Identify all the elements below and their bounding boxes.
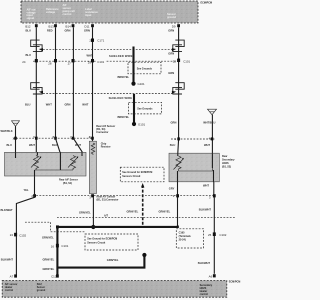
svg-text:BLK/WHT: BLK/WHT <box>199 208 212 212</box>
svg-text:WHT: WHT <box>75 143 81 147</box>
ECM/PCM header block <box>21 1 198 23</box>
svg-text:27: 27 <box>68 61 72 65</box>
heater wire colour labels <box>1 208 14 262</box>
pin C12 <box>51 274 59 278</box>
svg-text:C12: C12 <box>51 275 57 279</box>
see grounds note box lower <box>129 102 162 114</box>
pin D11 <box>84 24 93 28</box>
svg-text:B13: B13 <box>49 24 55 28</box>
svg-text:ground: ground <box>167 15 176 19</box>
sensor ground wire down to C12 <box>56 227 58 275</box>
svg-text:GRN: GRN <box>168 71 174 75</box>
svg-text:(B1, S1): (B1, S1) <box>63 182 72 185</box>
heater lead colour labels right <box>198 208 212 265</box>
pin B14 <box>66 24 75 28</box>
svg-text:GRY: GRY <box>169 186 175 190</box>
svg-text:GRN: GRN <box>168 52 174 56</box>
svg-text:ECM/PCM: ECM/PCM <box>229 280 241 283</box>
shield dashed link upper <box>43 49 172 51</box>
dashed ground drop from note box <box>141 183 144 227</box>
rear A/F sensor label <box>59 179 78 185</box>
pin B13 <box>49 24 57 28</box>
svg-text:BLK/WHT: BLK/WHT <box>1 258 14 262</box>
svg-text:C171: C171 <box>97 39 104 43</box>
ground G101 lower <box>132 122 146 127</box>
C101 connector dashed line <box>33 60 179 62</box>
shielded wire label lower <box>109 96 133 100</box>
svg-text:C101: C101 <box>97 60 104 64</box>
svg-text:BLU: BLU <box>7 143 13 147</box>
svg-text:D9: D9 <box>172 25 176 29</box>
pin A6 <box>209 274 216 278</box>
shield lead colour label <box>1 129 13 133</box>
svg-text:SHIELDED WIRE: SHIELDED WIRE <box>109 54 133 58</box>
svg-text:See Ground for ECM/PCM: See Ground for ECM/PCM <box>87 237 117 240</box>
svg-text:C102: C102 <box>219 233 226 237</box>
branch colour label <box>107 258 119 262</box>
svg-text:GRN: GRN <box>65 28 71 32</box>
shield clamp on W1 upper <box>31 40 43 51</box>
svg-text:See Ground for ECM/PCM: See Ground for ECM/PCM <box>122 171 152 174</box>
connector C101 pin 27 on W3 <box>68 59 75 65</box>
wire W3 GRN from B14 <box>73 27 82 152</box>
HO2S shield lead <box>211 115 213 154</box>
svg-text:D11: D11 <box>84 24 89 28</box>
svg-text:WHT: WHT <box>204 143 210 147</box>
svg-text:BRN/YEL: BRN/YEL <box>118 115 130 119</box>
see ground note box middle <box>85 234 138 250</box>
svg-text:signal: signal <box>27 16 35 20</box>
shield drain wire to G101 lower <box>133 94 135 124</box>
svg-text:BLK/WHT: BLK/WHT <box>198 261 211 265</box>
wire W5 GRN sensor ground <box>177 27 180 153</box>
ground wire colour labels <box>42 236 55 272</box>
HO2S pin 2 lower <box>173 194 179 198</box>
svg-text:control: control <box>5 289 14 292</box>
shield clamp on W5 upper <box>172 40 184 51</box>
HO2S below-box colour labels <box>169 183 210 190</box>
svg-text:16: 16 <box>51 244 55 248</box>
svg-text:WHT: WHT <box>29 143 35 147</box>
svg-text:BRN/YEL: BRN/YEL <box>118 75 130 79</box>
chip resistor pin 3 <box>89 194 94 199</box>
ground G101 upper <box>131 82 145 87</box>
connector C102 pin 24 <box>10 233 27 238</box>
svg-text:A7: A7 <box>10 275 14 279</box>
shield drain lead left <box>15 126 17 152</box>
YEL heater lead label <box>24 188 30 192</box>
svg-text:24: 24 <box>22 60 26 64</box>
svg-text:B12: B12 <box>25 24 31 28</box>
HO2S pigtail colour labels <box>170 143 211 147</box>
connector C101 pin 24 on W1 <box>22 59 38 64</box>
svg-text:See Grounds: See Grounds <box>137 108 153 111</box>
svg-text:Sensors Circuit: Sensors Circuit <box>87 241 105 244</box>
svg-text:GRN/YEL: GRN/YEL <box>43 258 55 262</box>
wire W1 colour labels <box>25 28 31 106</box>
svg-text:GRN: GRN <box>65 103 71 107</box>
A/T dashed branch left <box>25 222 85 232</box>
rear A/F sensor body <box>5 152 87 176</box>
svg-text:control: control <box>200 293 209 296</box>
pin A7 <box>10 274 17 278</box>
svg-text:YEL: YEL <box>24 188 30 192</box>
svg-text:(B1, S2): (B1, S2) <box>222 165 231 168</box>
svg-text:C101: C101 <box>61 244 68 248</box>
svg-text:GRN/YEL: GRN/YEL <box>127 210 139 214</box>
connector C101 pin 29 on W4 <box>88 59 106 65</box>
svg-text:input: input <box>85 13 91 17</box>
svg-text:ECM/PCM: ECM/PCM <box>201 2 213 5</box>
ground bus corner tick <box>56 225 59 228</box>
svg-text:BLK/WHT: BLK/WHT <box>1 208 14 212</box>
connector C102 pin 25 <box>208 232 227 237</box>
svg-text:(B1, S1) Connector: (B1, S1) Connector <box>97 199 119 202</box>
wire W1 BLU from B12 <box>35 27 37 152</box>
header pin function labels <box>27 3 177 20</box>
svg-text:WHT: WHT <box>82 103 88 107</box>
svg-text:BLU: BLU <box>170 143 176 147</box>
connector C101 pin 28 on W2 <box>48 59 57 66</box>
see ground note box right <box>120 167 164 182</box>
shield dashed link lower <box>43 93 172 95</box>
wire W4 colour labels <box>82 28 93 106</box>
svg-text:control: control <box>63 12 72 16</box>
svg-text:BLK: BLK <box>52 143 58 147</box>
connector C171 pin 2 on W4 <box>89 38 105 42</box>
svg-text:BLU: BLU <box>26 28 32 32</box>
HO2S lead colour label <box>203 121 215 125</box>
HO2S pin 1 <box>174 137 180 141</box>
drain colour label lower <box>118 115 130 119</box>
bottom block pin function labels <box>5 283 213 296</box>
svg-text:BLU: BLU <box>25 103 31 107</box>
svg-text:A6: A6 <box>209 275 213 279</box>
HO2S 4P connector dashed line <box>171 138 215 140</box>
svg-text:Sensors Circuit: Sensors Circuit <box>122 175 140 178</box>
connector C101 pin 22 on W5 <box>173 59 192 64</box>
svg-text:WHT: WHT <box>203 183 209 187</box>
shield drain wire to G101 upper <box>132 47 134 84</box>
svg-text:ground: ground <box>37 289 46 292</box>
svg-text:voltage: voltage <box>46 10 56 14</box>
HO2S pin 4 <box>209 137 214 141</box>
connector pin 6 <box>33 135 37 140</box>
HO2S lower leads <box>178 182 214 198</box>
chip resistor label <box>101 142 111 148</box>
ECM/PCM label top <box>201 2 213 5</box>
A/F sensor 8P connector dashed line <box>13 137 93 139</box>
svg-text:WHT: WHT <box>87 53 93 57</box>
see grounds note box upper <box>128 62 161 74</box>
svg-text:See Grounds: See Grounds <box>137 67 153 70</box>
svg-text:SHIELDED WIRE: SHIELDED WIRE <box>109 96 133 100</box>
HO2S pin 3 lower <box>209 194 216 200</box>
sensor connectors dashed line row <box>33 195 215 197</box>
ECM/PCM label bottom <box>229 280 241 283</box>
svg-text:GRN: GRN <box>84 28 90 32</box>
wire W5 colour labels <box>168 29 176 125</box>
svg-text:GRN/YEL: GRN/YEL <box>79 211 91 215</box>
C165 note box <box>176 229 203 248</box>
svg-text:GRN/YEL: GRN/YEL <box>43 267 55 271</box>
svg-text:C101: C101 <box>183 59 190 63</box>
svg-text:A/T: A/T <box>104 214 108 217</box>
svg-text:BLU: BLU <box>26 53 32 57</box>
connector pin 8 <box>52 135 56 140</box>
wire W3 colour labels <box>65 28 71 106</box>
A/F sensor ground lead from chip resistor <box>92 197 94 226</box>
shield clamp on W1 lower <box>31 83 43 94</box>
pin B12 <box>25 24 37 28</box>
svg-text:GRN/YEL: GRN/YEL <box>107 258 119 262</box>
chip resistor pin 4 <box>89 135 91 139</box>
svg-text:24: 24 <box>10 233 14 237</box>
rear secondary HO2S body <box>169 153 219 182</box>
svg-text:G101: G101 <box>138 123 145 127</box>
shielded wire label upper <box>109 54 133 58</box>
svg-text:GRN: GRN <box>171 121 177 125</box>
svg-text:22: 22 <box>173 60 177 64</box>
svg-text:WHT: WHT <box>46 103 52 107</box>
svg-text:RED: RED <box>47 28 53 32</box>
svg-text:GRN/YEL: GRN/YEL <box>159 210 171 214</box>
connector pin 7 <box>70 135 74 140</box>
svg-text:Resistor: Resistor <box>101 146 111 149</box>
wire W2 RED from B13 <box>56 27 61 152</box>
svg-text:29: 29 <box>88 61 92 65</box>
svg-text:25-24): 25-24) <box>179 239 186 242</box>
svg-text:B14: B14 <box>66 24 72 28</box>
rear A/F sensor connector label <box>96 125 115 134</box>
wire W4 GRN from D11 to chip resistor <box>92 27 94 141</box>
sensor pigtail colour labels <box>7 143 82 147</box>
HO2S heater lead <box>213 197 215 273</box>
rear A/F sensor connector label lower <box>97 196 119 202</box>
ECM/PCM bottom block <box>2 281 227 298</box>
svg-text:GRN: GRN <box>168 29 174 33</box>
svg-text:WHT/BLK: WHT/BLK <box>1 129 13 133</box>
svg-text:WHT/BLU: WHT/BLU <box>203 121 215 125</box>
wire W2 colour labels <box>46 28 53 106</box>
ground bus horizontal <box>57 226 177 227</box>
A/F sensor pin 2 <box>31 194 36 198</box>
A/F heater lead <box>16 176 34 275</box>
svg-text:G101: G101 <box>138 82 145 86</box>
junction dot on ground bus <box>91 225 95 229</box>
drain colour label upper <box>118 75 130 79</box>
rear secondary HO2S label <box>222 155 235 168</box>
connector pin 4 <box>89 135 94 140</box>
shield terminal symbol left <box>12 121 20 127</box>
HO2S sensor ground lead <box>177 197 179 226</box>
ground lead colour label <box>79 211 91 215</box>
svg-text:25: 25 <box>208 233 212 237</box>
svg-text:Connector: Connector <box>96 131 108 134</box>
chip resistor body <box>89 141 96 193</box>
HO2S ground lead colour labels <box>127 210 171 214</box>
ground branch to junction <box>57 253 146 268</box>
shield clamp on W5 lower <box>172 83 184 94</box>
svg-text:C102: C102 <box>19 233 26 237</box>
pin D9 <box>172 24 180 28</box>
svg-text:GRN/YEL: GRN/YEL <box>42 236 54 240</box>
A/T dashed line <box>57 214 236 217</box>
svg-text:28: 28 <box>48 62 52 66</box>
rear secondary HO2S shield terminal <box>208 109 217 115</box>
connector pin 1 <box>12 137 16 141</box>
connector C101 pin 16 <box>51 244 69 249</box>
